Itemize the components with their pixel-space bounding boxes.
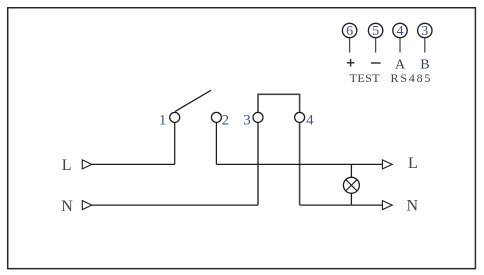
- svg-text:N: N: [61, 198, 73, 215]
- svg-text:6: 6: [346, 24, 353, 39]
- svg-text:TEST: TEST: [350, 71, 381, 85]
- svg-text:L: L: [62, 157, 72, 174]
- svg-text:L: L: [408, 155, 418, 172]
- svg-text:2: 2: [222, 112, 230, 128]
- svg-text:4: 4: [397, 24, 404, 39]
- svg-text:5: 5: [372, 24, 379, 39]
- svg-text:B: B: [420, 57, 429, 72]
- svg-text:A: A: [395, 57, 406, 72]
- svg-text:3: 3: [243, 112, 251, 128]
- svg-text:RS485: RS485: [391, 71, 433, 85]
- svg-text:N: N: [407, 197, 419, 214]
- svg-text:3: 3: [421, 24, 428, 39]
- svg-text:4: 4: [306, 112, 314, 128]
- svg-text:1: 1: [159, 112, 167, 128]
